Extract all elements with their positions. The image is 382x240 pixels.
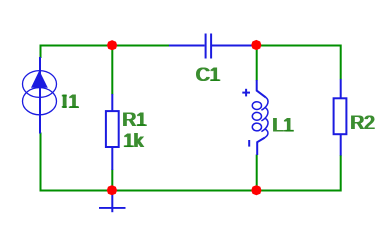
- wire R1 branch lower: [111, 170, 113, 191]
- svg-text:C1: C1: [196, 65, 220, 86]
- label 1k: [122, 131, 144, 152]
- wire top-right horizontal: [253, 45, 341, 47]
- wire left vertical lower: [40, 133, 42, 192]
- label R1: [122, 110, 148, 131]
- node dot bottom-right junction: [251, 185, 261, 195]
- node dot top-left junction: [107, 40, 117, 50]
- wire bottom horizontal: [40, 190, 341, 192]
- svg-text:L1: L1: [273, 116, 294, 137]
- resistor R1: [106, 94, 119, 170]
- svg-text:1k: 1k: [123, 131, 144, 152]
- polarity plus: [242, 89, 250, 97]
- wire R2 branch upper: [340, 45, 342, 80]
- label C1: [195, 65, 221, 86]
- label L1: [272, 116, 295, 137]
- wire R2 branch lower: [340, 155, 342, 192]
- wire left vertical upper: [40, 45, 42, 59]
- label R2: [350, 113, 376, 134]
- capacitor C1: [169, 34, 254, 59]
- inductor L1: [252, 80, 268, 155]
- wire R1 branch upper: [111, 46, 113, 95]
- wire L1 branch lower: [256, 155, 258, 191]
- node dot top-right junction: [251, 40, 261, 50]
- label serif details: [62, 80, 294, 146]
- label I1: [61, 92, 81, 113]
- node dot bottom-left junction: [107, 185, 117, 195]
- svg-text:R1: R1: [123, 110, 147, 131]
- ground: [99, 191, 126, 213]
- polarity minus: [248, 140, 250, 147]
- svg-text:R2: R2: [351, 113, 375, 134]
- resistor R2: [334, 79, 347, 156]
- wire L1 branch upper: [256, 46, 258, 81]
- current source I1: [23, 57, 57, 134]
- wire top-left horizontal: [41, 45, 170, 47]
